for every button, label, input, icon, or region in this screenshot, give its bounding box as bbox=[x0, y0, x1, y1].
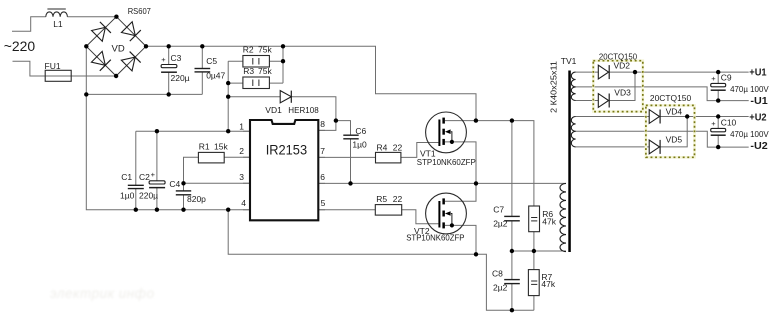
wire: secondary1 bottom lead to VD3 bbox=[576, 100, 599, 102]
svg-text:C5: C5 bbox=[206, 56, 217, 66]
resistor R7 bbox=[528, 270, 539, 296]
svg-text:C4: C4 bbox=[169, 179, 180, 189]
capacitor C5 bbox=[195, 69, 211, 72]
node R2R3 rail bbox=[281, 44, 285, 48]
wire: C1 vertical bbox=[135, 131, 137, 210]
svg-text:R4: R4 bbox=[377, 142, 388, 152]
node pin1 bbox=[226, 129, 230, 133]
svg-text:R2: R2 bbox=[243, 45, 254, 55]
wire: bottom bus drop and row B bbox=[228, 210, 534, 311]
capacitor C7 bbox=[504, 216, 520, 220]
node C7 top bbox=[510, 118, 514, 122]
diode VD3 bbox=[598, 94, 609, 108]
svg-text:VD5: VD5 bbox=[666, 134, 683, 144]
wire: pin8 lead jog bbox=[318, 121, 336, 131]
wire: C10 verticals bbox=[717, 117, 719, 148]
node C3 top bbox=[167, 44, 171, 48]
node C9 bottom bbox=[716, 98, 720, 102]
transistor VT1 bbox=[426, 112, 467, 153]
svg-text:3: 3 bbox=[239, 172, 244, 182]
wire: secondary1 top lead to VD2 bbox=[576, 71, 599, 73]
transformer secondary winding 2a bbox=[571, 117, 575, 132]
svg-text:L1: L1 bbox=[53, 19, 63, 29]
resistor R6 bbox=[529, 206, 540, 232]
svg-text:+: + bbox=[161, 55, 166, 64]
wire: VT1 source to midpoint bbox=[445, 142, 476, 184]
transformer secondary winding 1a bbox=[571, 72, 575, 87]
svg-text:20CTQ150: 20CTQ150 bbox=[650, 94, 692, 103]
wire: R2 left and right leads bbox=[228, 60, 283, 62]
svg-text:VD: VD bbox=[112, 44, 125, 55]
svg-text:1: 1 bbox=[239, 121, 244, 131]
dashed box VD4 VD5 bbox=[646, 105, 695, 157]
bridge diode bottom-right bbox=[121, 52, 141, 72]
wire: pin2 row from R1 bbox=[224, 156, 250, 158]
wire: pin1 row bbox=[136, 130, 250, 132]
resistor R4 bbox=[376, 152, 401, 163]
wire: R7 leads bbox=[533, 251, 535, 310]
svg-text:TV1: TV1 bbox=[561, 56, 577, 66]
wire: VD4 out row to +U2 bbox=[660, 116, 749, 118]
wire: C6 branch bbox=[336, 121, 351, 184]
svg-text:VD3: VD3 bbox=[614, 87, 631, 97]
svg-text:7: 7 bbox=[320, 146, 325, 156]
wire: R2R3 right vertical to rail bbox=[282, 46, 284, 83]
diode VD5 bbox=[649, 140, 660, 154]
node C2 top bbox=[155, 129, 159, 133]
node midpoint bbox=[474, 181, 478, 185]
svg-text:0µ47: 0µ47 bbox=[206, 71, 225, 81]
wire: C3 verticals bbox=[168, 46, 170, 94]
wire: fuse to bridge bottom bbox=[45, 75, 116, 77]
svg-text:22: 22 bbox=[393, 194, 403, 204]
dashed box VD2 VD3 bbox=[593, 61, 643, 112]
wire: AC input bottom stub bbox=[13, 61, 46, 76]
wire: R6 bottom lead bbox=[533, 232, 535, 251]
fuse FU1 bbox=[45, 70, 71, 81]
wire: C9 verticals bbox=[717, 72, 719, 101]
wire: VD1 cathode to pin8 node bbox=[291, 97, 336, 121]
svg-text:15k: 15k bbox=[214, 142, 228, 152]
svg-text:2 К40х25х11: 2 К40х25х11 bbox=[549, 61, 559, 113]
svg-text:R5: R5 bbox=[376, 194, 387, 204]
svg-text:+: + bbox=[151, 170, 156, 179]
wire: VD2 out row to +U1 bbox=[609, 71, 749, 73]
node VT1 drain bbox=[474, 118, 478, 122]
wire: secondary2 bottom lead to VD5 bbox=[576, 146, 650, 148]
node bridge left bbox=[84, 44, 88, 48]
inductor L1 bbox=[46, 9, 68, 17]
node bridge right bbox=[144, 44, 148, 48]
capacitor C4 bbox=[176, 191, 191, 195]
svg-text:C6: C6 bbox=[355, 126, 366, 136]
node VT2 source bbox=[474, 252, 478, 256]
wire: R2R3 left vertical down to pin1 bbox=[227, 61, 229, 131]
svg-text:VD4: VD4 bbox=[666, 106, 683, 116]
bridge diode top-left bbox=[91, 22, 111, 42]
node R3 left bbox=[226, 81, 230, 85]
wire: VD3 out riser bbox=[609, 72, 635, 100]
wire: +310V top rail bbox=[146, 46, 476, 120]
capacitor C9 electrolytic bbox=[711, 83, 726, 90]
wire: VT1 drain row bbox=[445, 121, 534, 206]
svg-text:+: + bbox=[711, 74, 716, 83]
svg-text:STP10NK60ZFP: STP10NK60ZFP bbox=[406, 234, 464, 243]
diode VD4 bbox=[649, 110, 660, 124]
svg-text:~220: ~220 bbox=[4, 39, 35, 54]
svg-text:8: 8 bbox=[320, 119, 325, 129]
node C8 bottom bbox=[510, 308, 514, 312]
node R6 bottom bbox=[532, 249, 536, 253]
wire: C4 vertical bbox=[183, 183, 185, 209]
wire: R3 leads bbox=[228, 82, 283, 84]
diode VD1 bbox=[280, 91, 291, 103]
svg-text:47k: 47k bbox=[542, 216, 556, 226]
IC U1 IR2153 body bbox=[243, 131, 250, 210]
wire: pin3 row bbox=[184, 182, 251, 184]
wire: C8 vertical bbox=[511, 251, 513, 310]
node minus branch bbox=[84, 92, 88, 96]
node bottom bus bbox=[226, 208, 230, 212]
bridge rectifier VD edges bbox=[86, 17, 146, 76]
svg-text:47k: 47k bbox=[541, 279, 555, 289]
wire: minus branch rail under C3 C5 bbox=[86, 93, 202, 95]
wire: C2 vertical bbox=[156, 131, 158, 210]
node C6 bottom bbox=[348, 181, 352, 185]
node bridge top bbox=[114, 15, 118, 19]
node C7 bottom bbox=[510, 249, 514, 253]
svg-text:C1: C1 bbox=[121, 172, 132, 182]
svg-text:4: 4 bbox=[241, 198, 246, 208]
svg-text:электрик инфо: электрик инфо bbox=[50, 286, 155, 301]
svg-text:470µ 100V: 470µ 100V bbox=[730, 85, 769, 94]
resistor R1 bbox=[198, 152, 224, 163]
wire: L1 to bridge top bbox=[67, 16, 116, 18]
svg-text:R1: R1 bbox=[199, 142, 210, 152]
transformer secondary winding 1b bbox=[571, 87, 575, 101]
svg-text:C7: C7 bbox=[493, 204, 504, 214]
transformer TV1 core bbox=[568, 71, 571, 253]
wire: midpoint down to VT2 drain bbox=[445, 183, 476, 201]
svg-text:C8: C8 bbox=[492, 268, 503, 278]
svg-text:RS607: RS607 bbox=[128, 6, 151, 16]
svg-text:R3: R3 bbox=[243, 66, 254, 76]
wire: pin5 row to R5 bbox=[318, 209, 375, 211]
wire: VD5 out riser bbox=[660, 117, 688, 147]
node VD5 join bbox=[685, 114, 689, 118]
diode VD2 bbox=[598, 65, 609, 79]
wire: row A divider midpoint bbox=[512, 250, 566, 252]
svg-text:75k: 75k bbox=[258, 66, 272, 76]
svg-text:VD1: VD1 bbox=[265, 105, 282, 115]
wire: C5 verticals bbox=[201, 46, 203, 94]
svg-text:820p: 820p bbox=[187, 194, 206, 204]
svg-text:75k: 75k bbox=[258, 45, 272, 55]
transistor VT2 bbox=[426, 193, 467, 234]
svg-text:2µ2: 2µ2 bbox=[493, 282, 508, 292]
wire: secondary2 center tap row bbox=[576, 131, 749, 147]
svg-text:2µ2: 2µ2 bbox=[493, 219, 508, 229]
transformer TV1 primary winding bbox=[560, 183, 566, 251]
faint watermark bbox=[50, 286, 155, 301]
transformer secondary winding 2b bbox=[571, 131, 575, 147]
wire: C7 vertical bbox=[511, 121, 513, 251]
svg-text:IR2153: IR2153 bbox=[266, 142, 308, 158]
svg-text:FU1: FU1 bbox=[45, 61, 61, 71]
wire: secondary1 center tap row bbox=[576, 87, 749, 101]
wire: pin7 row to R4 bbox=[318, 156, 375, 158]
capacitor C6 bbox=[343, 135, 358, 139]
node C10 bottom bbox=[716, 145, 720, 149]
node C3 bottom bbox=[167, 92, 171, 96]
svg-text:C9: C9 bbox=[721, 72, 732, 82]
node C1 bottom bbox=[134, 208, 138, 212]
svg-text:1µ0: 1µ0 bbox=[352, 140, 367, 150]
bridge diode top-right bbox=[121, 22, 141, 42]
capacitor C1 bbox=[128, 185, 144, 188]
svg-text:2: 2 bbox=[239, 146, 244, 156]
capacitor C10 electrolytic bbox=[711, 128, 726, 135]
svg-text:C10: C10 bbox=[721, 117, 737, 127]
node C10 top bbox=[716, 114, 720, 118]
capacitor C8 bbox=[504, 280, 520, 284]
svg-text:-U1: -U1 bbox=[750, 96, 768, 107]
resistor R2 bbox=[243, 56, 270, 68]
svg-text:-U2: -U2 bbox=[750, 141, 767, 152]
wire: R5 to VT2 gate bbox=[402, 210, 439, 224]
wire: secondary2 top lead to VD4 bbox=[576, 116, 650, 118]
wire: VD1 anode lead bbox=[228, 96, 280, 98]
svg-text:1µ0: 1µ0 bbox=[120, 190, 135, 200]
svg-text:6: 6 bbox=[320, 172, 325, 182]
node VD1 anode bbox=[226, 95, 230, 99]
svg-text:HER108: HER108 bbox=[288, 105, 319, 115]
node VD3 join bbox=[633, 70, 637, 74]
resistor R5 bbox=[375, 205, 401, 216]
node VD1 VB bbox=[334, 118, 338, 122]
svg-text:+: + bbox=[711, 119, 716, 128]
node C2 bottom bbox=[155, 208, 159, 212]
node bridge bottom bbox=[114, 74, 118, 78]
svg-text:C2: C2 bbox=[139, 172, 150, 182]
capacitor C3 electrolytic bbox=[161, 65, 177, 73]
bridge diode bottom-left bbox=[91, 51, 111, 71]
node C9 top bbox=[716, 70, 720, 74]
wire: VT2 source down to row B bbox=[445, 225, 476, 254]
resistor R3 bbox=[243, 77, 270, 89]
node C5 top bbox=[200, 44, 204, 48]
svg-text:470µ 100V: 470µ 100V bbox=[730, 130, 769, 139]
svg-text:22: 22 bbox=[393, 142, 403, 152]
svg-text:220µ: 220µ bbox=[171, 73, 190, 83]
node pin3 C4 bbox=[181, 181, 185, 185]
svg-text:220µ: 220µ bbox=[139, 190, 158, 200]
svg-text:+U1: +U1 bbox=[749, 67, 767, 78]
wire: AC input top stub bbox=[12, 17, 46, 32]
svg-text:VD2: VD2 bbox=[614, 60, 631, 70]
svg-text:STP10NK60ZFP: STP10NK60ZFP bbox=[417, 158, 476, 167]
wire: R1 left lead and drop to pin3 bbox=[184, 157, 199, 183]
node R2 right bbox=[281, 59, 285, 63]
wire: bridge minus vertical bbox=[86, 46, 250, 209]
wire: R4 to VT1 gate bbox=[401, 143, 439, 158]
wire: pin6 midpoint row bbox=[318, 182, 566, 184]
svg-text:C3: C3 bbox=[171, 53, 182, 63]
capacitor C2 electrolytic bbox=[149, 181, 165, 188]
node C4 bottom bbox=[181, 208, 185, 212]
svg-text:+U2: +U2 bbox=[749, 112, 766, 123]
svg-text:5: 5 bbox=[321, 198, 326, 208]
